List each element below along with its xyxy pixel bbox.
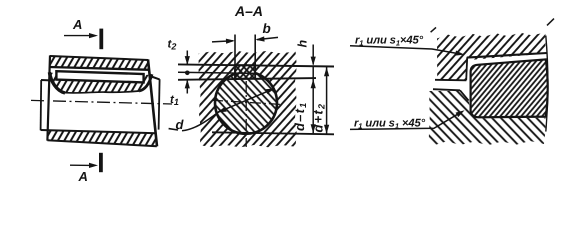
slot break line left arc <box>49 72 65 93</box>
svg-text:b: b <box>263 21 271 36</box>
hub groove bottom line <box>467 53 547 58</box>
hub keyway wall <box>466 57 467 80</box>
circle vertical centerline <box>245 62 247 147</box>
shaft detail hatch <box>429 91 546 145</box>
svg-text:A: A <box>78 169 88 181</box>
shaft left end <box>40 80 43 130</box>
keyway slot break-out hatch <box>50 73 152 93</box>
hub left edge <box>47 55 50 140</box>
detail break line (bowed) <box>546 36 548 132</box>
b arrow right <box>257 37 278 39</box>
stray hatch tick top right <box>547 19 554 26</box>
shaft right end <box>159 79 160 129</box>
bottom note leader <box>350 113 460 130</box>
t1 dimension <box>186 81 188 94</box>
shaft top tangent extension line <box>178 72 256 73</box>
shaft surface line <box>433 89 460 90</box>
shaft bottom continuation dash <box>169 129 178 130</box>
hub bore line <box>435 79 466 82</box>
stray hatch tick <box>431 27 436 32</box>
section cut bar bottom <box>99 153 103 172</box>
svg-text:r1 или s1×45°: r1 или s1×45° <box>355 35 424 48</box>
shaft top line left <box>41 79 50 81</box>
section cut bar top <box>99 29 103 50</box>
svg-text:t2: t2 <box>168 39 177 52</box>
hub block hatch <box>199 51 297 147</box>
diameter d line <box>182 110 221 130</box>
shared reference dot <box>185 71 190 76</box>
hub detail hatch <box>437 32 545 80</box>
hub right edge <box>148 59 157 146</box>
svg-text:h: h <box>296 40 310 48</box>
svg-text:t1: t1 <box>170 94 179 107</box>
key cross-section <box>235 65 255 78</box>
hub groove bottom line <box>50 67 150 70</box>
key top line extended <box>178 64 334 66</box>
shaft bottom line <box>41 130 157 133</box>
shaft top line right <box>150 76 160 79</box>
hub top outline <box>50 56 148 60</box>
circle bottom tangent line <box>212 132 334 134</box>
shaft centerline <box>31 100 172 104</box>
section arrow top <box>64 35 92 37</box>
svg-text:A–A: A–A <box>234 3 263 19</box>
section arrow bottom <box>70 164 92 166</box>
svg-text:d: d <box>176 117 185 132</box>
circle horizontal centerline <box>212 100 281 104</box>
slot break line right arc <box>139 74 152 91</box>
shaft chamfer line <box>460 90 469 100</box>
svg-text:A: A <box>72 17 82 32</box>
shaft circle section <box>215 72 277 134</box>
b extension line right <box>254 35 256 80</box>
hub bottom outline <box>47 140 156 146</box>
top note leader <box>350 46 459 54</box>
key (side view) <box>56 71 143 82</box>
d-t1 dimension line <box>312 66 314 133</box>
b arrow left <box>212 41 233 42</box>
b extension line left <box>234 35 236 80</box>
key detail block <box>471 59 548 117</box>
hub bottom hatch band <box>48 130 157 146</box>
d+t2 dimension line <box>326 67 328 134</box>
slot break line bottom wavy <box>65 91 140 93</box>
hub top hatch band <box>50 56 150 69</box>
keyway bottom line extended <box>178 78 316 80</box>
